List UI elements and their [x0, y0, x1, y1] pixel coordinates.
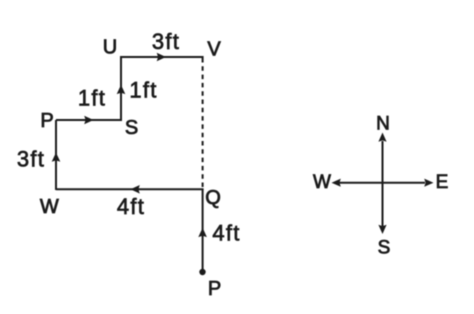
svg-text:W: W [313, 172, 331, 193]
svg-text:4ft: 4ft [212, 221, 240, 246]
svg-text:E: E [436, 172, 449, 193]
svg-text:P: P [208, 278, 221, 300]
svg-text:V: V [207, 39, 221, 61]
svg-text:3ft: 3ft [17, 147, 45, 172]
svg-text:S: S [378, 238, 391, 259]
svg-text:U: U [103, 37, 117, 59]
svg-text:3ft: 3ft [152, 29, 180, 54]
svg-text:1ft: 1ft [78, 86, 106, 111]
svg-text:W: W [40, 196, 59, 218]
svg-text:P: P [40, 110, 53, 132]
svg-text:4ft: 4ft [117, 194, 145, 219]
svg-text:N: N [376, 114, 390, 135]
svg-text:1ft: 1ft [129, 78, 157, 103]
svg-text:S: S [125, 117, 138, 139]
svg-text:Q: Q [205, 187, 221, 209]
